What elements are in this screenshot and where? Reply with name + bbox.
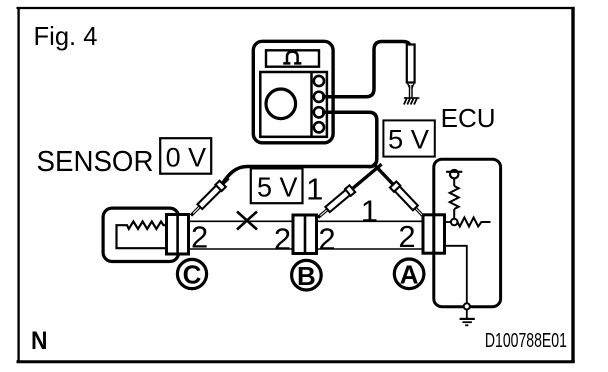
connector A	[423, 215, 445, 253]
wire C to B (signal, top)	[189, 220, 424, 222]
svg-text:ECU: ECU	[441, 103, 496, 133]
sensor body	[103, 208, 179, 261]
resistor (to comparator)	[458, 218, 491, 227]
ohmmeter U1 body	[253, 41, 333, 143]
wire from terminal 3 down to probe junction	[322, 112, 377, 167]
probe contact hatch	[404, 98, 420, 105]
test probe to connector B	[315, 161, 384, 221]
wire from terminal 2 to top probe	[322, 42, 411, 97]
ground	[460, 310, 475, 326]
test probe to connector A	[370, 160, 427, 220]
node C (circled)	[177, 259, 206, 289]
resistor (sensor element loop)	[117, 222, 168, 249]
ohmmeter terminal 1	[314, 76, 324, 86]
svg-text:A: A	[400, 260, 419, 290]
svg-text:C: C	[183, 260, 202, 290]
test probe P1 (to ECU terminal)	[407, 45, 415, 98]
power supply terminal	[446, 170, 462, 178]
connector C	[167, 215, 189, 255]
resistor (pull-up)	[450, 186, 459, 209]
svg-text:SENSOR: SENSOR	[37, 146, 154, 178]
bus wire from sensor probe to junction	[222, 167, 371, 186]
ground node	[464, 303, 470, 309]
svg-text:Fig. 4: Fig. 4	[34, 21, 98, 51]
open-circuit mark X	[237, 212, 257, 230]
wire connector A pin 2 to ground	[445, 246, 467, 303]
wire C to B (ground, bottom)	[189, 248, 424, 250]
svg-text:2: 2	[318, 221, 335, 256]
ohmmeter terminal 4	[314, 122, 324, 132]
svg-text:0 V: 0 V	[166, 142, 207, 172]
ohmmeter display	[266, 50, 319, 66]
test probe to connector C	[188, 175, 232, 219]
node A (circled)	[394, 259, 424, 290]
value box 0 V	[160, 138, 211, 174]
ohmmeter panel	[260, 72, 327, 137]
value box 5 V (sensor side)	[251, 168, 303, 203]
svg-text:B: B	[297, 261, 316, 291]
svg-text:2: 2	[398, 219, 415, 254]
svg-text:D100788E01: D100788E01	[485, 330, 567, 352]
wire supply to resistor	[453, 178, 455, 186]
svg-text:5 V: 5 V	[388, 125, 429, 155]
wire node to connector A pin 1	[445, 221, 452, 223]
wire resistor to node	[453, 209, 455, 219]
ohmmeter terminal 2	[314, 92, 324, 102]
ECU box	[434, 159, 501, 307]
value box 5 V (ECU side)	[383, 120, 434, 156]
node (5V divider)	[451, 219, 458, 226]
svg-text:5 V: 5 V	[257, 171, 298, 202]
node B (circled)	[292, 260, 322, 291]
svg-text:1: 1	[361, 194, 378, 229]
svg-text:1: 1	[306, 171, 323, 206]
ohmmeter dial	[266, 89, 296, 119]
svg-text:2: 2	[191, 220, 208, 255]
svg-text:2: 2	[274, 221, 291, 256]
svg-text:N: N	[31, 327, 48, 355]
ohmmeter terminal 3	[314, 107, 324, 117]
connector B	[293, 215, 317, 254]
